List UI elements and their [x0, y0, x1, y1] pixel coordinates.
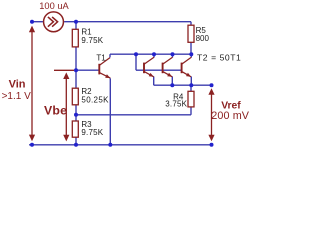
- svg-text:800: 800: [196, 34, 210, 43]
- svg-text:9.75K: 9.75K: [81, 36, 103, 45]
- svg-text:3.75K: 3.75K: [165, 100, 187, 109]
- svg-text:>1.1 V: >1.1 V: [2, 91, 32, 102]
- svg-text:200 mV: 200 mV: [211, 110, 250, 122]
- svg-text:T2 = 50T1: T2 = 50T1: [197, 52, 241, 62]
- svg-text:Vbe: Vbe: [44, 103, 67, 117]
- svg-text:T1: T1: [96, 54, 106, 63]
- svg-text:9.75K: 9.75K: [81, 128, 103, 137]
- svg-text:50.25K: 50.25K: [81, 96, 109, 105]
- svg-text:100 uA: 100 uA: [39, 1, 69, 11]
- svg-text:Vin: Vin: [9, 78, 26, 90]
